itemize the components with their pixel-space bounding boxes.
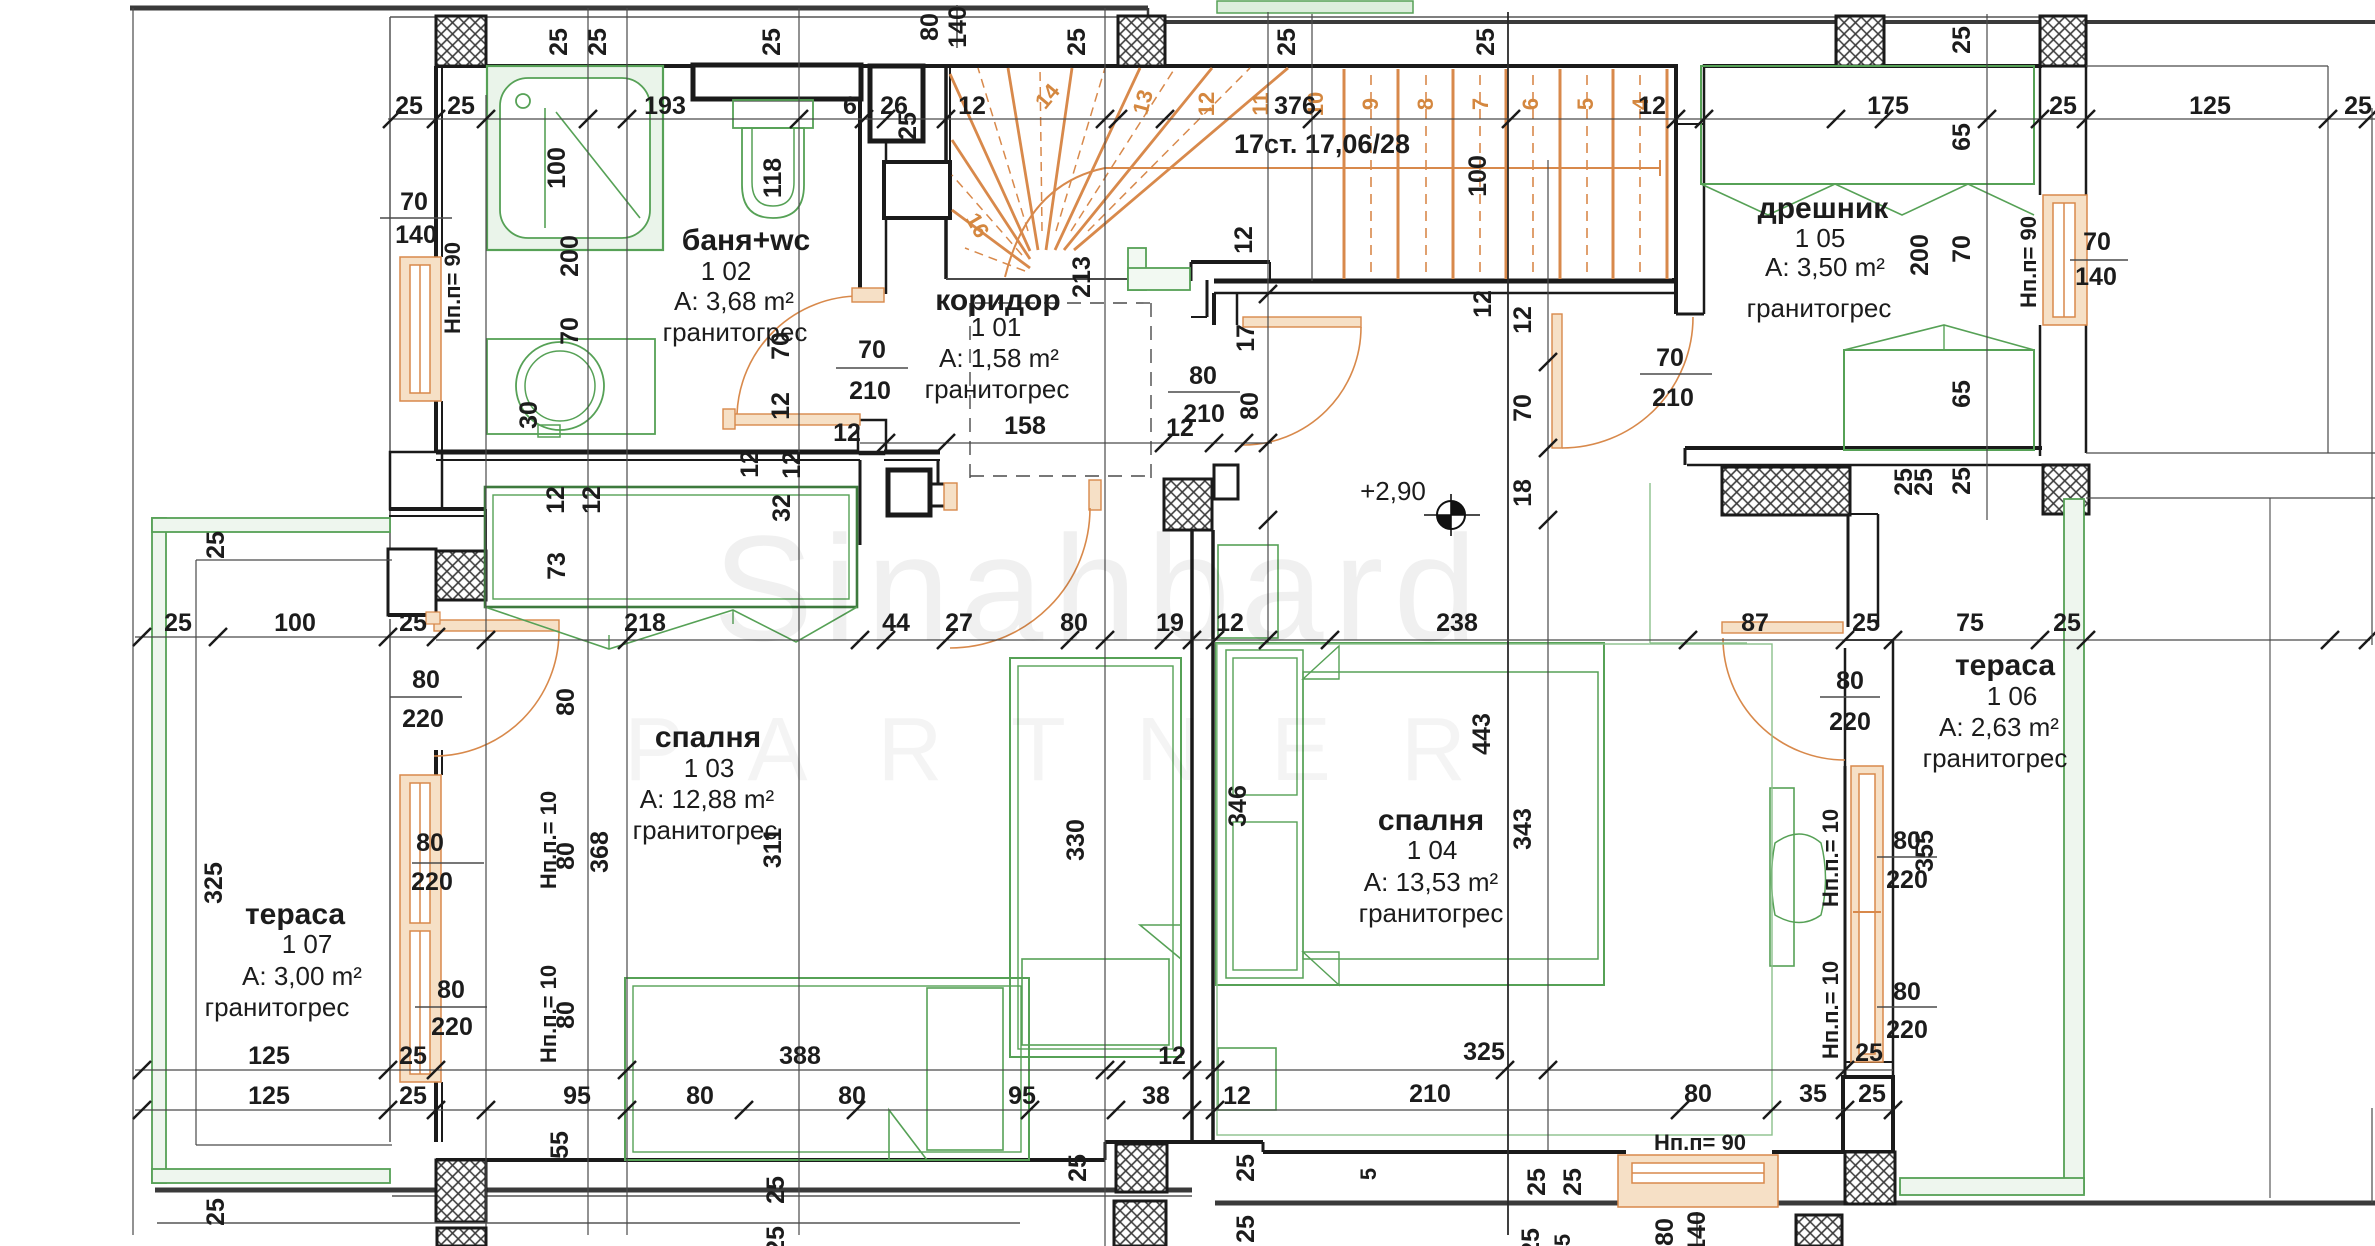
svg-text:140: 140 xyxy=(2075,263,2117,291)
svg-text:325: 325 xyxy=(1463,1038,1505,1066)
svg-text:12: 12 xyxy=(1194,92,1219,116)
shower tray xyxy=(487,66,663,250)
svg-text:311: 311 xyxy=(759,828,787,868)
svg-text:25: 25 xyxy=(164,609,192,637)
svg-text:12: 12 xyxy=(1230,226,1258,254)
svg-text:80: 80 xyxy=(686,1082,714,1110)
svg-text:70: 70 xyxy=(400,188,428,216)
svg-text:25: 25 xyxy=(1948,467,1976,495)
grid vline x588 xyxy=(587,8,589,1235)
grid vline right edge xyxy=(2371,108,2373,645)
svg-text:25: 25 xyxy=(1063,28,1091,56)
svg-text:343: 343 xyxy=(1509,808,1537,850)
svg-text:80: 80 xyxy=(552,688,580,716)
svg-text:140: 140 xyxy=(944,6,972,48)
lower outline line bottom-left xyxy=(157,1222,1020,1224)
stair walk line xyxy=(1005,168,1105,277)
svg-text:Нп.п.= 10: Нп.п.= 10 xyxy=(536,791,561,889)
svg-text:25: 25 xyxy=(399,609,427,637)
svg-text:80: 80 xyxy=(1684,1080,1712,1108)
double bed bedroom 104 xyxy=(1216,643,1604,985)
svg-text:1 04: 1 04 xyxy=(1407,835,1458,865)
svg-text:75: 75 xyxy=(1956,609,1984,637)
svg-text:70: 70 xyxy=(556,317,584,345)
svg-text:175: 175 xyxy=(1867,92,1909,120)
svg-text:12: 12 xyxy=(736,450,764,478)
closet west wall piece at bottom xyxy=(1685,447,1704,449)
svg-text:25: 25 xyxy=(2049,92,2077,120)
svg-text:25: 25 xyxy=(1559,1168,1587,1196)
svg-text:80: 80 xyxy=(1189,362,1217,390)
terrace 106 railing xyxy=(2064,499,2084,1193)
svg-text:17ст. 17,06/28: 17ст. 17,06/28 xyxy=(1234,129,1410,159)
window Нп.п=90 in 104 south wall xyxy=(1618,1155,1778,1207)
svg-text:гранитогрес: гранитогрес xyxy=(1923,743,2068,773)
dim line top y119 xyxy=(388,118,2375,120)
stair tread dashed companions xyxy=(1370,75,1372,273)
TV unit bedroom 104 xyxy=(1770,788,1794,966)
hatched column SE of closet xyxy=(2043,465,2089,514)
svg-text:25: 25 xyxy=(1523,1168,1551,1196)
dim line corridor y443 xyxy=(860,442,1272,444)
wardrobe closet lower xyxy=(1844,350,2034,450)
terrace 1 07 top wall xyxy=(388,549,436,615)
wall niche left of stairs xyxy=(884,162,950,218)
hatched column top C xyxy=(1836,16,1884,66)
svg-text:+2,90: +2,90 xyxy=(1360,476,1426,506)
green roof strip above stairs xyxy=(1217,1,1413,13)
svg-text:25: 25 xyxy=(1273,28,1301,56)
partition wall between bedrooms xyxy=(1190,530,1194,1142)
door bedroom103->terrace107 (80/220) xyxy=(434,620,559,631)
hatched column below line (mid) xyxy=(1114,1201,1166,1246)
svg-text:6: 6 xyxy=(843,92,857,120)
window 70/140 in bathroom west wall xyxy=(400,257,441,401)
svg-text:80: 80 xyxy=(437,976,465,1004)
section line top-right (stepped) xyxy=(1147,8,1150,22)
svg-text:80: 80 xyxy=(1651,1218,1679,1246)
svg-text:12: 12 xyxy=(1509,306,1537,334)
svg-text:спалня: спалня xyxy=(1378,804,1484,837)
room 104 green boundary xyxy=(1217,644,1772,1135)
svg-text:210: 210 xyxy=(1183,400,1225,428)
svg-text:35: 35 xyxy=(1799,1080,1827,1108)
svg-text:12: 12 xyxy=(578,486,606,514)
hatched column at terrace/bedroom corner xyxy=(436,551,486,600)
svg-text:18: 18 xyxy=(1509,479,1537,507)
shelf above toilet xyxy=(693,65,861,99)
svg-text:80: 80 xyxy=(1236,392,1264,420)
svg-text:30: 30 xyxy=(515,401,543,429)
grid vline x627 xyxy=(626,8,628,1235)
closet bottom wall xyxy=(1685,446,2042,450)
svg-text:125: 125 xyxy=(248,1082,290,1110)
WC partition lower complex xyxy=(884,450,940,455)
upper terrace thin outline right xyxy=(2327,66,2329,453)
svg-text:25: 25 xyxy=(447,92,475,120)
svg-text:193: 193 xyxy=(644,92,686,120)
duct square xyxy=(888,470,930,515)
svg-text:158: 158 xyxy=(1004,412,1046,440)
wardrobe bedroom 103 xyxy=(485,487,857,607)
grid vline x486 xyxy=(485,95,487,1230)
hall green boundary xyxy=(1649,483,1651,643)
door bathroom (70/210) xyxy=(731,414,860,425)
wall below bathroom (west) xyxy=(390,452,442,509)
svg-text:12: 12 xyxy=(1223,1082,1251,1110)
terrace inner outline xyxy=(195,560,197,1145)
svg-text:дрешник: дрешник xyxy=(1758,192,1890,225)
svg-text:87: 87 xyxy=(1741,609,1769,637)
svg-text:25: 25 xyxy=(1852,609,1880,637)
svg-text:70: 70 xyxy=(1948,235,1976,263)
svg-text:тераса: тераса xyxy=(245,898,345,931)
corridor-hall wall piece xyxy=(1212,293,1216,325)
level symbol xyxy=(1437,501,1465,529)
svg-text:A: 3,50 m²: A: 3,50 m² xyxy=(1765,252,1885,282)
svg-text:118: 118 xyxy=(759,158,787,198)
corner wall piece SE of room 104 xyxy=(1843,1077,1893,1152)
svg-text:25: 25 xyxy=(2344,92,2372,120)
svg-text:25: 25 xyxy=(1910,468,1938,496)
grid vline x1987 xyxy=(1986,14,1988,520)
svg-text:368: 368 xyxy=(586,831,614,873)
svg-text:7: 7 xyxy=(1468,98,1493,110)
svg-text:100: 100 xyxy=(274,609,316,637)
nightstand top 104 xyxy=(1218,545,1278,638)
svg-text:80: 80 xyxy=(412,666,440,694)
svg-text:гранитогрес: гранитогрес xyxy=(925,374,1070,404)
window 80/220 in room104 east wall xyxy=(1851,766,1883,1062)
toilet xyxy=(733,100,813,128)
svg-text:5: 5 xyxy=(1550,1234,1575,1246)
svg-text:25: 25 xyxy=(1948,26,1976,54)
hatched column below line far left xyxy=(437,1228,486,1246)
bottom wall of bedroom 104 xyxy=(1263,1150,1626,1154)
svg-text:80: 80 xyxy=(1893,978,1921,1006)
upper terrace outline top edge xyxy=(2086,65,2328,67)
svg-text:тераса: тераса xyxy=(1955,649,2055,682)
grid vline x1548 xyxy=(1547,160,1549,1150)
svg-text:70: 70 xyxy=(858,336,886,364)
window 70/140 in closet east wall xyxy=(2043,195,2087,325)
bedroom west wall (with door+window) xyxy=(389,619,391,1142)
svg-text:5: 5 xyxy=(1356,1168,1381,1180)
svg-text:1 07: 1 07 xyxy=(282,929,333,959)
grid vline x1268 xyxy=(1267,12,1269,643)
grid vline x799 xyxy=(798,8,800,1235)
svg-text:70: 70 xyxy=(1509,394,1537,422)
svg-text:80: 80 xyxy=(916,13,944,41)
svg-text:гранитогрес: гранитогрес xyxy=(1359,898,1504,928)
svg-text:25: 25 xyxy=(1232,1215,1260,1243)
svg-text:125: 125 xyxy=(248,1042,290,1070)
svg-text:220: 220 xyxy=(1829,708,1871,736)
hatched column top B xyxy=(1118,16,1165,66)
svg-text:баня+wc: баня+wc xyxy=(682,224,810,257)
stairs bottom boundary (winder) xyxy=(946,278,1128,280)
bathroom south wall xyxy=(436,450,860,455)
svg-text:Нп.п= 90: Нп.п= 90 xyxy=(2016,216,2041,308)
svg-text:A: 1,58 m²: A: 1,58 m² xyxy=(939,343,1059,373)
svg-text:140: 140 xyxy=(395,221,437,249)
svg-text:325: 325 xyxy=(200,862,228,904)
stairwell right wall xyxy=(1674,64,1678,314)
svg-text:25: 25 xyxy=(399,1082,427,1110)
bed 2 bedroom 103 (horizontal) xyxy=(625,978,1029,1160)
svg-text:A: 13,53 m²: A: 13,53 m² xyxy=(1364,867,1499,897)
svg-text:11: 11 xyxy=(1248,92,1273,115)
grid vline far left xyxy=(132,8,134,1235)
svg-text:25: 25 xyxy=(762,1226,790,1246)
svg-text:65: 65 xyxy=(1948,123,1976,151)
svg-text:25: 25 xyxy=(1517,1228,1545,1246)
stair entry marker (green) xyxy=(1128,248,1146,290)
svg-text:25: 25 xyxy=(1472,28,1500,56)
svg-text:218: 218 xyxy=(624,609,666,637)
svg-text:210: 210 xyxy=(1652,384,1694,412)
svg-text:Sinahbard: Sinahbard xyxy=(713,504,1487,672)
svg-text:1 01: 1 01 xyxy=(971,312,1022,342)
grid vline x1312 xyxy=(1311,14,1313,281)
svg-text:Нп.п.= 10: Нп.п.= 10 xyxy=(1818,961,1843,1059)
room 104 east wall xyxy=(1847,514,1850,627)
svg-text:220: 220 xyxy=(402,705,444,733)
svg-text:55: 55 xyxy=(546,1131,574,1159)
svg-text:12: 12 xyxy=(778,451,806,479)
svg-text:гранитогрес: гранитогрес xyxy=(633,815,778,845)
svg-text:388: 388 xyxy=(779,1042,821,1070)
winder fan treads xyxy=(950,74,1030,251)
svg-text:гранитогрес: гранитогрес xyxy=(205,992,350,1022)
svg-text:1 05: 1 05 xyxy=(1795,223,1846,253)
svg-text:Нп.п.= 10: Нп.п.= 10 xyxy=(536,965,561,1063)
svg-text:200: 200 xyxy=(1906,234,1934,276)
svg-text:25: 25 xyxy=(395,92,423,120)
winder fan dashed xyxy=(978,68,1028,231)
bathroom west wall xyxy=(389,17,391,549)
stairwell west wall xyxy=(944,66,948,279)
svg-text:220: 220 xyxy=(1886,1016,1928,1044)
svg-text:125: 125 xyxy=(2189,92,2231,120)
hatched column top A xyxy=(436,16,486,66)
terrace 106 inner thin line xyxy=(2269,498,2271,1198)
svg-text:6: 6 xyxy=(1518,98,1543,110)
stairs bottom wall xyxy=(1214,279,1676,284)
dim line bottom A y1070 xyxy=(135,1069,1893,1071)
hatched column mid (corridor) xyxy=(1164,479,1212,530)
door hall->bedroom104 (80/220) xyxy=(1722,622,1843,633)
hatched column SE bottom xyxy=(1845,1152,1895,1204)
svg-text:100: 100 xyxy=(1464,155,1492,197)
svg-text:80: 80 xyxy=(1836,667,1864,695)
svg-text:A: 3,00 m²: A: 3,00 m² xyxy=(242,961,362,991)
svg-text:213: 213 xyxy=(1068,256,1096,298)
svg-text:12: 12 xyxy=(767,392,795,420)
svg-text:5: 5 xyxy=(1573,98,1598,110)
hatched column bottom-left xyxy=(436,1160,486,1222)
wide hatched pier below closet xyxy=(1722,467,1850,515)
dim line middle y640 xyxy=(135,636,436,638)
svg-text:25: 25 xyxy=(894,112,922,140)
svg-text:25: 25 xyxy=(202,531,230,559)
svg-text:25: 25 xyxy=(202,1198,230,1226)
svg-text:73: 73 xyxy=(543,552,571,580)
door corridor->hall (70/210) xyxy=(1243,317,1361,327)
svg-text:Нп.п= 90: Нп.п= 90 xyxy=(1654,1130,1746,1155)
svg-text:гранитогрес: гранитогрес xyxy=(1747,293,1892,323)
stairs bottom wall left corner xyxy=(1191,260,1270,264)
svg-text:38: 38 xyxy=(1142,1082,1170,1110)
svg-text:25: 25 xyxy=(584,28,612,56)
svg-text:PARTNER: PARTNER xyxy=(624,700,1536,800)
svg-text:70: 70 xyxy=(1656,344,1684,372)
svg-text:12: 12 xyxy=(1469,290,1497,318)
wardrobe closet top xyxy=(1701,66,2034,184)
svg-text:25: 25 xyxy=(1858,1080,1886,1108)
bathroom east wall xyxy=(858,66,862,294)
svg-text:330: 330 xyxy=(1062,819,1090,861)
svg-text:355: 355 xyxy=(1911,830,1939,872)
hatched column top D (NE corner) xyxy=(2040,16,2086,66)
svg-text:1 02: 1 02 xyxy=(701,256,752,286)
svg-text:210: 210 xyxy=(1409,1080,1451,1108)
grid vline x1508 (axis) xyxy=(1507,12,1509,1235)
svg-text:220: 220 xyxy=(431,1013,473,1041)
svg-text:1 06: 1 06 xyxy=(1987,681,2038,711)
WC partition notch xyxy=(860,424,884,454)
window 80/220 double in bedroom west wall xyxy=(400,775,441,1082)
svg-text:12: 12 xyxy=(1158,1042,1186,1070)
svg-text:12: 12 xyxy=(542,486,570,514)
svg-text:25: 25 xyxy=(1855,1039,1883,1067)
svg-text:Нп.п= 90: Нп.п= 90 xyxy=(440,242,465,334)
svg-text:376: 376 xyxy=(1274,92,1316,120)
grid vline x1105 xyxy=(1104,8,1106,1246)
svg-text:95: 95 xyxy=(563,1082,591,1110)
section line top-left xyxy=(130,6,1148,11)
wall bar above wardrobe corner xyxy=(389,507,486,511)
terrace 107 railing xyxy=(152,518,166,1183)
hatched column below line right xyxy=(1796,1215,1842,1246)
svg-text:A: 2,63 m²: A: 2,63 m² xyxy=(1939,712,2059,742)
svg-text:200: 200 xyxy=(556,235,584,277)
svg-text:12: 12 xyxy=(958,92,986,120)
svg-text:210: 210 xyxy=(849,377,891,405)
svg-text:65: 65 xyxy=(1948,380,1976,408)
sink counter xyxy=(487,339,655,434)
nightstand bottom 104 xyxy=(1218,1048,1276,1110)
bed 1 bedroom 103 (vertical) xyxy=(1010,658,1181,1057)
door corridor->bedroom103 (80/210) xyxy=(944,483,957,510)
bottom wall of bedroom 103 xyxy=(436,1158,1105,1162)
svg-text:80: 80 xyxy=(416,829,444,857)
svg-text:220: 220 xyxy=(411,868,453,896)
svg-text:80: 80 xyxy=(838,1082,866,1110)
svg-text:25: 25 xyxy=(545,28,573,56)
svg-text:70: 70 xyxy=(2083,228,2111,256)
corridor dashed outline xyxy=(969,303,971,478)
stair treads (straight flight) xyxy=(1343,69,1346,279)
svg-text:Нп.п.= 10: Нп.п.= 10 xyxy=(1818,809,1843,907)
svg-text:140: 140 xyxy=(1683,1211,1711,1246)
partition arm to door xyxy=(930,483,946,486)
svg-text:25: 25 xyxy=(399,1042,427,1070)
svg-text:9: 9 xyxy=(1358,98,1383,110)
svg-text:17: 17 xyxy=(1232,324,1260,352)
door hall->closet (70/210) xyxy=(1552,314,1562,448)
svg-text:25: 25 xyxy=(762,1176,790,1204)
svg-text:8: 8 xyxy=(1413,98,1438,110)
svg-text:A: 3,68 m²: A: 3,68 m² xyxy=(674,286,794,316)
dim line bottom B y1110 xyxy=(135,1109,1893,1111)
wall pip below bathroom door xyxy=(858,420,886,452)
svg-text:12: 12 xyxy=(1638,92,1666,120)
svg-text:95: 95 xyxy=(1008,1082,1036,1110)
svg-text:100: 100 xyxy=(543,147,571,189)
svg-text:12: 12 xyxy=(833,419,861,447)
svg-text:25: 25 xyxy=(758,28,786,56)
svg-text:25: 25 xyxy=(1232,1154,1260,1182)
svg-text:25: 25 xyxy=(2053,609,2081,637)
hatched column bottom-mid xyxy=(1116,1144,1167,1192)
svg-text:70: 70 xyxy=(767,332,795,360)
svg-text:25: 25 xyxy=(1064,1154,1092,1182)
top exterior wall band xyxy=(390,16,2086,18)
wall piece below corridor door xyxy=(1214,465,1238,499)
closet east wall xyxy=(2039,66,2042,195)
fraction lines xyxy=(380,217,452,219)
duct right of shelf xyxy=(870,66,923,141)
